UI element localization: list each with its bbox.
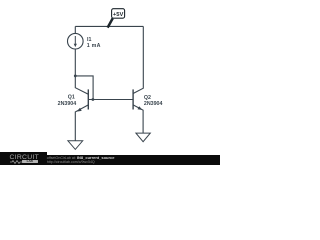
node junction base [92,98,95,101]
footer black bar tall (logo zone) [0,152,47,166]
wire current source top pin [74,26,76,33]
footer text line 2 [47,161,95,165]
wire top rail [75,25,143,27]
transistor Q1 [75,76,88,141]
svg-text:+5V: +5V [113,12,124,18]
svg-text:2N3904: 2N3904 [58,101,77,107]
ground GND1 [68,141,83,150]
ground GND2 [136,133,150,142]
CircuitLab logo LAB box [22,160,39,163]
node junction collector Q1 [74,75,77,78]
transistor Q2 [133,26,143,133]
svg-text:2N3904: 2N3904 [144,101,163,107]
wire diode connection [75,76,93,100]
wire current source bottom to node [74,49,76,76]
footer text line 1 [47,156,115,161]
CircuitLab logo resistor zigzag [10,160,23,164]
+5V flag [108,9,125,28]
footer black bar main [47,155,221,165]
labels [58,37,163,107]
current source I1 [68,33,84,49]
CircuitLab logo text CIRCUIT [10,154,40,161]
svg-text:Q1: Q1 [68,95,75,101]
wire base Q1 to base Q2 [88,99,133,101]
svg-text:1 mA: 1 mA [87,43,101,49]
